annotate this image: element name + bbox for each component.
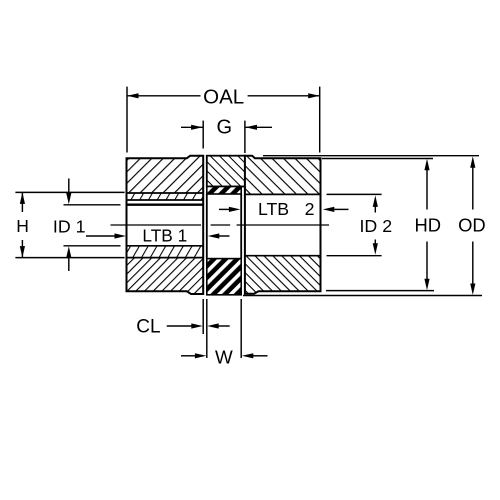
OD dimension line lower [472, 242, 474, 285]
OAL arrowhead left [127, 93, 139, 98]
centerline left segment [111, 224, 231, 226]
OAL arrowhead right [308, 93, 320, 98]
svg-text:OD: OD [458, 215, 486, 236]
HD extension line bottom [326, 290, 434, 292]
W extension line right [240, 299, 242, 358]
svg-text:HD: HD [415, 215, 442, 236]
centerline right segment [237, 224, 329, 226]
svg-text:H: H [16, 216, 29, 236]
H extension line top [15, 191, 124, 193]
HD arrowhead top [424, 159, 429, 171]
OD extension line top [263, 155, 479, 157]
left hub bore top line [127, 203, 204, 205]
W arrowhead left [195, 353, 207, 358]
spider tooth block [207, 259, 241, 295]
HD arrowhead bottom [424, 279, 429, 291]
right hub lower section [245, 256, 321, 294]
svg-text:G: G [217, 116, 233, 138]
OD extension line bottom [243, 295, 482, 297]
ID 1 arrowhead bottom [66, 246, 71, 258]
LTB 1 arrowhead left [115, 233, 127, 238]
ID 2 arrowhead bottom [373, 243, 378, 255]
W dimension line left [181, 355, 196, 357]
H dimension line lower [21, 240, 23, 258]
spider right face line [240, 194, 242, 259]
OAL dimension line left part [127, 95, 201, 97]
H arrowhead top [20, 192, 25, 204]
HD dimension line lower [426, 242, 428, 281]
H arrowhead bottom [20, 246, 25, 258]
left hub lower barrel section [127, 258, 204, 294]
G dimension line right [246, 126, 273, 128]
svg-text:2: 2 [305, 199, 315, 219]
LTB 2 leader shaft left [219, 208, 232, 210]
ID 1 extension line bottom [64, 245, 121, 247]
svg-text:OAL: OAL [203, 85, 244, 108]
OD arrowhead bottom [470, 284, 475, 296]
ID 2 leader shaft top [374, 206, 376, 213]
spider left face line [206, 194, 208, 259]
left hub upper keyway band [127, 193, 204, 200]
left hub upper barrel section [127, 156, 204, 193]
OD arrowhead top [470, 156, 475, 168]
LTB 2 arrowhead left [229, 207, 241, 212]
OAL extension line right [319, 87, 321, 153]
OAL extension line left [126, 87, 128, 153]
G arrowhead left [191, 125, 203, 130]
LTB 1 leader shaft left [86, 235, 117, 237]
right hub jaw block over spider [207, 156, 245, 187]
W dimension line right [253, 355, 268, 357]
G dimension line left [181, 126, 203, 128]
left hub outline [127, 156, 204, 294]
LTB 1 arrowhead right [208, 233, 220, 238]
right hub upper section [245, 156, 321, 195]
left hub bore bottom line [127, 245, 204, 247]
H dimension line upper [21, 192, 23, 212]
G extension line left [202, 121, 204, 149]
CL and W shared extension line [206, 299, 208, 358]
left hub lower keyway band [127, 246, 204, 258]
HD extension line top [322, 158, 433, 160]
OD dimension line upper [472, 167, 474, 210]
G arrowhead right [246, 125, 258, 130]
left hub keyway inner line [127, 199, 204, 201]
CL extension line left [202, 299, 204, 334]
W arrowhead right [242, 353, 254, 358]
svg-text:LTB 1: LTB 1 [142, 226, 187, 246]
ID 1 extension line top [64, 204, 121, 206]
HD dimension line upper [426, 170, 428, 210]
G extension line right [244, 121, 246, 153]
OAL dimension line right part [248, 95, 320, 97]
spider flange band [207, 187, 241, 195]
svg-text:ID 2: ID 2 [359, 216, 392, 236]
CL arrowhead left [191, 323, 203, 328]
svg-text:LTB: LTB [258, 199, 289, 219]
left hub lower band bottom line [127, 257, 204, 259]
svg-text:ID 1: ID 1 [53, 217, 86, 237]
svg-text:W: W [215, 346, 233, 367]
right hub outline [245, 156, 321, 294]
ID 2 extension line top [327, 193, 382, 195]
left hub keyway top line [127, 192, 204, 194]
right hub bore bottom line [245, 255, 321, 257]
ID 1 leader shaft bottom [68, 257, 70, 271]
right hub bore top line [245, 193, 321, 195]
H extension line bottom [15, 257, 124, 259]
LTB 2 arrowhead right [323, 207, 335, 212]
ID 1 leader shaft top [68, 179, 70, 194]
CL arrowhead right [207, 323, 219, 328]
svg-text:CL: CL [136, 317, 160, 338]
ID 1 arrowhead top [66, 193, 71, 205]
ID 2 extension line bottom [327, 255, 382, 257]
LTB 2 leader shaft right [333, 208, 349, 210]
ID 2 leader shaft bottom [374, 240, 376, 245]
ID 2 arrowhead top [373, 195, 378, 207]
CL dimension line left [167, 325, 192, 327]
LTB 1 leader shaft right [218, 235, 230, 237]
CL dimension line right [218, 325, 230, 327]
